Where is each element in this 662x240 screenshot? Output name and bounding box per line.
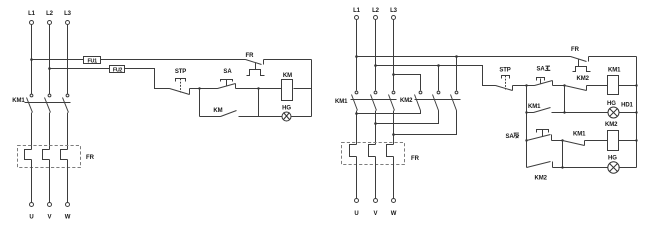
wire KM1 pole2 to FR xyxy=(49,113,51,150)
wire L1 tap to FR contact xyxy=(357,56,571,58)
junction node before coil xyxy=(257,87,259,89)
contactor KM1 main contacts xyxy=(12,94,70,112)
svg-text:KM: KM xyxy=(283,73,292,79)
svg-text:HD1: HD1 xyxy=(621,103,633,109)
svg-text:L2: L2 xyxy=(46,11,54,17)
wire L1 tap to FU1 xyxy=(32,59,84,61)
svg-text:FR: FR xyxy=(411,156,420,162)
wire STP to SA xyxy=(190,88,218,90)
wire drop to KM2 pole2 xyxy=(438,66,440,91)
wire junction down to lamp row xyxy=(258,89,260,117)
junction L1 tap xyxy=(355,55,358,58)
svg-text:KM2: KM2 xyxy=(605,122,618,128)
node L3 (right) xyxy=(390,8,398,19)
thermal overload FR heater box (right) xyxy=(342,143,405,165)
wire KM1 NC to coil KM2 xyxy=(585,140,608,142)
junction on L2 xyxy=(48,67,51,70)
wire L2 tap to control xyxy=(376,66,496,86)
node L2 xyxy=(46,11,54,25)
junction on L1 xyxy=(30,58,33,61)
wire KM1 pole1 down xyxy=(356,111,358,145)
node U (right) xyxy=(354,199,358,217)
svg-text:SA: SA xyxy=(223,69,232,75)
wire KM1 pole1 to FR xyxy=(31,113,33,150)
svg-text:KM2: KM2 xyxy=(535,176,548,182)
junction node after STP xyxy=(198,87,200,89)
svg-text:HG: HG xyxy=(607,101,616,107)
FR heater element 3 (right) xyxy=(387,145,394,157)
wire L3 tap to KM2 pole1 xyxy=(394,75,421,91)
svg-text:FR: FR xyxy=(246,53,255,59)
svg-text:KM1: KM1 xyxy=(528,104,541,110)
wire right rail (right) xyxy=(636,57,638,168)
svg-text:V: V xyxy=(48,215,52,221)
svg-text:W: W xyxy=(391,211,397,217)
node W (right) xyxy=(391,199,397,217)
wire branch down to row2 xyxy=(564,86,566,113)
node L2 (right) xyxy=(372,8,380,19)
svg-text:SA: SA xyxy=(537,66,546,72)
node V (right) xyxy=(374,199,378,217)
svg-text:KM: KM xyxy=(213,108,222,114)
node L1 xyxy=(28,11,36,25)
wire L3 rail (right) xyxy=(393,20,395,91)
wire KM1 pole3 to FR xyxy=(67,113,69,150)
wire lamp to right rail xyxy=(292,116,312,118)
svg-text:HG: HG xyxy=(282,106,291,112)
junction row4 xyxy=(561,166,563,168)
junction tap2/KM2 pole2 xyxy=(437,64,440,67)
wire FR to right rail xyxy=(264,59,312,61)
FR heater element 3 xyxy=(61,150,68,160)
junction selfhold branch xyxy=(525,84,527,86)
lamp HG (reverse) xyxy=(608,156,619,174)
wire coil to right rail xyxy=(294,88,312,90)
wire KM2 NC to coil KM1 xyxy=(587,85,608,87)
wire L2 tap to FU2 xyxy=(50,68,110,70)
pushbutton SA-rev (NO start) xyxy=(506,130,552,142)
contactor KM1 main contacts (right) xyxy=(335,91,397,110)
wire branch down to selfhold row xyxy=(199,89,201,117)
node U xyxy=(29,203,33,221)
contact KM2 auxiliary (selfhold NO) xyxy=(527,162,608,182)
svg-text:L1: L1 xyxy=(353,8,361,14)
wire FU1 to FR xyxy=(101,59,246,61)
FR heater element 1 (right) xyxy=(350,145,357,157)
contact KM2 interlock (NC) xyxy=(565,76,590,90)
wire coil KM1 to rail xyxy=(619,85,637,87)
wire coil KM2 to rail xyxy=(619,140,637,142)
svg-text:U: U xyxy=(29,215,33,221)
wire merge phase3 xyxy=(392,111,456,136)
svg-text:KM1: KM1 xyxy=(608,68,621,74)
wire SA to KM2 NC xyxy=(553,85,565,87)
svg-text:KM1: KM1 xyxy=(12,98,25,104)
thermal contact FR (control, NC) xyxy=(246,53,265,76)
wire FR to U (right) xyxy=(356,157,358,199)
svg-text:FR: FR xyxy=(86,155,95,161)
wire L2 rail (right) xyxy=(375,20,377,91)
svg-text:L3: L3 xyxy=(64,11,72,17)
thermal contact FR (right control, NC) xyxy=(571,47,591,71)
FR heater element 2 xyxy=(43,150,50,160)
junction coil1-rail xyxy=(635,84,637,86)
wire lamp2 to rail xyxy=(619,167,637,169)
svg-text:STP: STP xyxy=(499,68,510,74)
node W xyxy=(65,203,71,221)
coil KM xyxy=(282,73,293,101)
wire FR to right rail (right) xyxy=(589,56,637,58)
wire lamp1 to rail xyxy=(619,112,637,114)
svg-text:FU2: FU2 xyxy=(113,67,123,73)
svg-text:L3: L3 xyxy=(390,8,398,14)
wire L3 rail xyxy=(67,25,69,95)
junction lamp branch xyxy=(563,84,565,86)
node L1 (right) xyxy=(353,8,361,19)
wire drop to KM2 pole3 xyxy=(456,57,458,91)
svg-text:W: W xyxy=(65,215,71,221)
pushbutton SA-fwd (NO start) xyxy=(535,66,553,85)
wire FR to W xyxy=(67,160,69,203)
contact KM1 interlock (NC) xyxy=(563,132,587,146)
wire SA-rev to KM1 NC xyxy=(552,140,563,142)
junction L3 tap xyxy=(392,73,395,76)
wire merge phase1 xyxy=(355,111,420,115)
fuse FU1 xyxy=(84,57,101,65)
FR heater element 2 (right) xyxy=(369,145,376,157)
lamp HG (run) xyxy=(607,101,634,118)
FR heater element 1 xyxy=(25,150,32,160)
fuse FU2 xyxy=(110,66,125,74)
svg-text:U: U xyxy=(354,211,358,217)
wire SA to coil KM xyxy=(236,88,282,90)
thermal overload FR heater box xyxy=(18,146,81,168)
svg-text:L1: L1 xyxy=(28,11,36,17)
junction L2 tap xyxy=(374,64,377,67)
wire merge phase2 xyxy=(374,111,438,125)
wire FR to V xyxy=(49,160,51,203)
svg-text:KM2: KM2 xyxy=(577,76,590,82)
wire left branch vertical xyxy=(526,86,528,168)
svg-text:KM1: KM1 xyxy=(335,99,348,105)
contact KM1 auxiliary (selfhold NO) xyxy=(525,104,607,114)
node V xyxy=(48,203,52,221)
pushbutton STP (NC stop) xyxy=(170,69,190,94)
svg-text:SA: SA xyxy=(506,134,515,140)
wire STP to SA xyxy=(513,85,535,87)
junction lamp1-rail xyxy=(635,111,637,113)
contactor KM2 main contacts xyxy=(400,91,461,110)
svg-text:HG: HG xyxy=(608,156,617,162)
wire KM1 pole3 down xyxy=(393,111,395,145)
pushbutton SA (NO start) xyxy=(218,69,236,88)
pushbutton STP (right NC stop) xyxy=(496,68,513,91)
svg-text:V: V xyxy=(374,211,378,217)
wire L2 rail xyxy=(49,25,51,95)
svg-text:FU1: FU1 xyxy=(88,58,98,64)
coil KM2 xyxy=(605,122,619,151)
wire FR to U xyxy=(31,160,33,203)
coil KM1 xyxy=(608,68,622,95)
wire FU2 to control corner xyxy=(125,69,170,89)
contact KM auxiliary (selfhold NO) xyxy=(200,108,259,117)
junction coil2-rail xyxy=(635,139,637,141)
node L3 xyxy=(64,11,72,25)
junction tap1/KM2 pole3 xyxy=(455,55,458,58)
wire right rail xyxy=(311,60,313,117)
junction row3 xyxy=(561,139,563,141)
wire to lamp HG xyxy=(259,116,283,118)
wire FR to V (right) xyxy=(375,157,377,199)
wire L1 rail (right) xyxy=(356,20,358,91)
svg-text:KM1: KM1 xyxy=(573,132,586,138)
wire KM1 pole2 down xyxy=(375,111,377,145)
wire branch down to row4 xyxy=(562,141,564,168)
svg-text:L2: L2 xyxy=(372,8,380,14)
svg-text:STP: STP xyxy=(175,69,186,75)
svg-text:KM2: KM2 xyxy=(400,98,413,104)
svg-text:FR: FR xyxy=(571,47,580,53)
lamp HG xyxy=(282,106,291,121)
wire L1 rail xyxy=(31,25,33,95)
wire FR to W (right) xyxy=(393,157,395,199)
junction row2 xyxy=(563,111,565,113)
